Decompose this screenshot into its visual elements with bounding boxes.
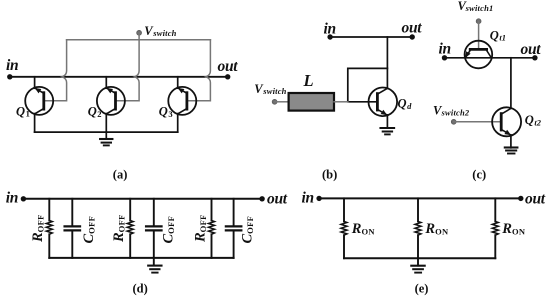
ground (b) [381, 128, 395, 134]
transistor Qt1 [465, 41, 493, 69]
resistor Roff 2 [127, 199, 133, 258]
svg-text:out: out [267, 191, 288, 208]
svg-text:(d): (d) [133, 282, 148, 296]
svg-text:switch: switch [262, 86, 286, 96]
svg-text:out: out [402, 19, 423, 36]
resistor Ron 3 [492, 198, 498, 258]
wire Vswitch stub (a) [138, 33, 140, 40]
node in (e) [316, 196, 321, 201]
node Vswitch1 (c) [476, 19, 481, 24]
ground (a) [100, 132, 112, 145]
svg-text:out: out [525, 190, 546, 207]
transistor Q3 [168, 77, 196, 132]
svg-text:Q: Q [16, 104, 25, 118]
svg-text:(e): (e) [415, 282, 429, 296]
wire collector-base feedback loop (b) [348, 68, 388, 101]
svg-text:in: in [6, 189, 18, 206]
wire gray drop Q1 with hop [44, 40, 67, 101]
resistor Ron 1 [341, 198, 347, 258]
capacitor Coff 3 [226, 199, 241, 258]
node out (d) [259, 196, 264, 201]
transistor Q1 [25, 77, 53, 132]
wire gray drop Q2 with hop [116, 40, 140, 101]
svg-text:1: 1 [26, 109, 30, 119]
inductor L [289, 93, 334, 111]
wire gray bus (a) [67, 39, 211, 41]
svg-text:(c): (c) [472, 167, 486, 181]
svg-text:out: out [521, 41, 542, 58]
wire bottom rail (a) [35, 131, 178, 133]
capacitor Coff 1 [65, 199, 80, 258]
svg-text:in: in [324, 21, 336, 38]
node out (e) [518, 196, 523, 201]
ground (e) [411, 258, 424, 272]
svg-text:out: out [218, 58, 239, 75]
wire bottom rail (d) [49, 257, 233, 259]
node out (c) [532, 55, 537, 60]
ground (c) [505, 148, 518, 154]
wire in-out rail (c) [445, 57, 535, 59]
svg-text:in: in [302, 189, 314, 206]
transistor Q2 [97, 77, 125, 132]
svg-text:Q: Q [159, 105, 168, 119]
wire gray drop Q3 with hop [187, 40, 211, 101]
node Vswitch (b) [272, 99, 277, 104]
wire bottom rail (e) [344, 257, 495, 259]
svg-text:(b): (b) [322, 167, 337, 181]
svg-text:L: L [303, 71, 314, 90]
node in (b) [327, 34, 332, 39]
svg-text:t2: t2 [534, 118, 541, 128]
capacitor Coff 2 [146, 199, 161, 258]
wire Vswitch1 to Qt1 base [478, 21, 480, 49]
node Vswitch2 (c) [451, 119, 456, 124]
svg-text:Q: Q [490, 28, 499, 42]
node in (d) [21, 196, 26, 201]
wire top rail (e) [319, 197, 521, 199]
transistor Qt2 [492, 107, 521, 148]
node out (a) [225, 74, 230, 79]
transistor Qd [369, 88, 398, 128]
resistor Ron 2 [415, 198, 421, 258]
node Vswitch (a) [137, 30, 142, 35]
svg-text:switch: switch [152, 28, 176, 38]
ground (d) [148, 258, 161, 273]
wire in-out rail (a) [10, 76, 228, 78]
wire Vswitch to inductor (b) [275, 101, 289, 103]
wire junction drop (c) [510, 58, 512, 109]
node in (a) [7, 74, 12, 79]
svg-text:switch2: switch2 [441, 108, 470, 118]
svg-text:switch1: switch1 [465, 3, 494, 13]
wire inductor to base (b) [334, 101, 348, 103]
wire in-out rail (b) [330, 36, 412, 38]
svg-text:2: 2 [97, 109, 101, 119]
node out (b) [410, 34, 415, 39]
svg-text:t1: t1 [499, 33, 506, 43]
svg-text:3: 3 [168, 109, 172, 119]
svg-text:Q: Q [88, 105, 97, 119]
svg-text:Q: Q [398, 97, 407, 111]
svg-text:Q: Q [525, 113, 534, 127]
resistor Roff 3 [209, 199, 215, 258]
svg-text:(a): (a) [113, 167, 128, 181]
svg-text:in: in [439, 41, 451, 58]
wire collector drop (b) [386, 37, 388, 88]
resistor Roff 1 [46, 199, 52, 258]
wire Vswitch2 to Qt2 base [454, 121, 502, 123]
wire top rail (d) [23, 198, 262, 200]
svg-text:in: in [6, 57, 18, 74]
node in (c) [442, 55, 447, 60]
svg-text:d: d [407, 101, 412, 111]
